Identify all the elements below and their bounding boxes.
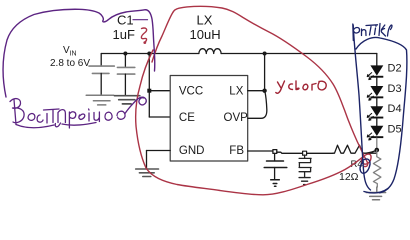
wire: CIN lead to ground — [100, 73, 102, 95]
wire: zigzag resistor to sense node — [366, 150, 377, 153]
node: sense node dot — [375, 148, 380, 153]
wire: C2 lead to ground — [274, 168, 276, 180]
wire: VIN top rail left segment — [101, 53, 198, 55]
node: VCC/CE tie junction — [147, 89, 151, 93]
ground CIN — [86, 95, 114, 105]
svg-text:OVP: OVP — [224, 112, 249, 124]
annotation: blue pen dome and right side — [356, 37, 407, 192]
LED D3 arrows — [367, 93, 373, 100]
svg-text:C1: C1 — [117, 13, 134, 28]
svg-text:1uF: 1uF — [113, 27, 135, 42]
wire: VCC pin stub — [149, 90, 170, 92]
junction square FB node 2 — [303, 151, 307, 155]
wire: VIN lead down to input capacitor — [100, 54, 102, 67]
wire: top rail right segment to LED column — [221, 53, 377, 55]
wire: D4 to D5 — [376, 119, 378, 127]
wire: OVP pin stub and hook up to LX node — [248, 92, 267, 118]
wire: FB pin stub — [248, 150, 273, 152]
svg-text:D3: D3 — [388, 83, 402, 95]
annotation: purple pen tick near C1 label — [133, 19, 148, 21]
wire: rail down to VCC pin — [148, 54, 150, 91]
resistor meander (FB compensation) — [299, 155, 311, 177]
annotation: purple tail flourish — [125, 97, 146, 113]
wire: D5 to sense node — [376, 138, 378, 150]
wire: GND lead down — [146, 151, 148, 169]
wire: D2 to D3 — [376, 78, 378, 87]
svg-text:2.8 to 6V: 2.8 to 6V — [50, 58, 90, 69]
annotation: purple pen big loop — [3, 9, 155, 97]
svg-text:VCC: VCC — [179, 86, 203, 98]
annotation: purple handwriting word — [10, 99, 125, 128]
annotation: red handwriting "усього" — [276, 81, 326, 93]
svg-text:IN: IN — [70, 51, 77, 58]
resistor (FB sense link, horizontal zigzag) — [333, 145, 377, 153]
LED D5 arrows — [367, 133, 373, 140]
annotation: red pen left lap with bottom sweep and lasso end — [136, 50, 371, 195]
wire: CE pin stub — [149, 116, 170, 118]
svg-text:GND: GND — [179, 145, 205, 157]
ground C1 — [115, 96, 140, 104]
op IC U1 body — [170, 76, 248, 162]
annotation: blue pen small loop near R4 — [360, 159, 370, 173]
LED D2 — [370, 65, 383, 77]
LED D2 arrows — [367, 73, 373, 80]
LED D3 — [370, 86, 383, 98]
annotation: blue handwriting word — [353, 24, 392, 41]
svg-text:10uH: 10uH — [190, 27, 221, 42]
junction square FB node 1 — [273, 150, 277, 154]
LED D5 — [370, 126, 383, 138]
node: C1 top junction — [123, 52, 127, 56]
wire: LX up to rail — [264, 54, 266, 91]
ground C2 — [271, 180, 280, 187]
wire: tie down to CE — [148, 91, 150, 117]
LED D4 — [370, 106, 383, 118]
svg-text:FB: FB — [229, 145, 244, 157]
annotation: blue pen left side stroke — [353, 25, 370, 190]
annotation: red pen top arc and right descent — [152, 6, 368, 166]
annotation: blue pen bottom crossing — [364, 189, 388, 193]
svg-text:LX: LX — [229, 86, 243, 98]
wire: D3 to D4 — [376, 98, 378, 106]
node: VCC feed junction on rail — [147, 52, 151, 56]
node: LX junction dot — [262, 89, 266, 93]
capacitor C2 plates (FB filter) — [264, 161, 287, 168]
wire: R4 to ground — [376, 187, 378, 192]
svg-text:LX: LX — [197, 13, 213, 28]
wire: C2 lead — [274, 153, 276, 161]
wire: FB run middle — [277, 152, 333, 153]
svg-text:12Ω: 12Ω — [339, 171, 359, 183]
capacitor CIN plates — [89, 66, 114, 73]
ground LED return — [366, 193, 385, 200]
svg-text:D2: D2 — [388, 63, 402, 75]
svg-text:D4: D4 — [388, 103, 402, 115]
node: rail junction above LX — [263, 52, 267, 56]
resistor R4 12ohm sense — [373, 150, 381, 187]
ground meander — [299, 178, 310, 185]
inductor L1 10uH — [199, 49, 221, 54]
svg-text:CE: CE — [179, 112, 195, 124]
capacitor C1 plates — [117, 67, 134, 74]
wire: C1 lead down — [124, 54, 126, 68]
wire: GND pin stub — [147, 150, 171, 152]
wire: C1 lead to ground — [124, 74, 126, 96]
svg-text:D5: D5 — [388, 123, 402, 135]
annotation: red pen curl near C1 — [141, 28, 146, 42]
ground IC GND — [136, 169, 159, 177]
LED D4 arrows — [367, 113, 373, 120]
wire: LX pin stub — [248, 90, 265, 92]
wire: LED column top — [376, 54, 378, 66]
